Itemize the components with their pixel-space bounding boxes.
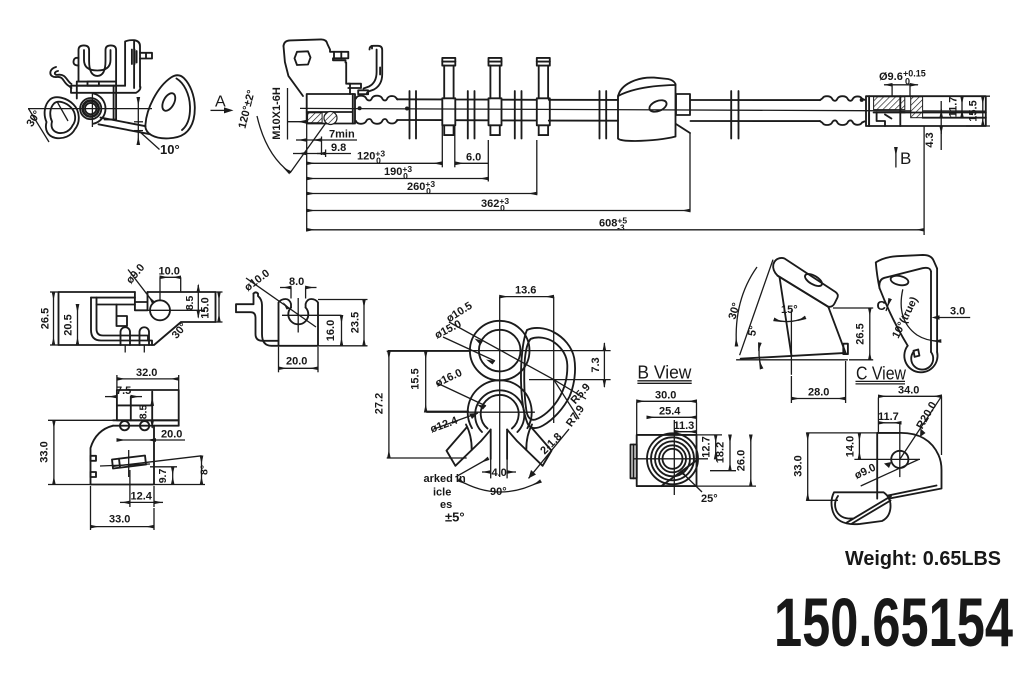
R20.0 leader: [900, 396, 942, 459]
plate outline: [59, 292, 216, 345]
inner J tab: [91, 298, 152, 345]
side rect: [676, 94, 690, 115]
7min dimension: [296, 139, 307, 141]
weld dot on hose: [405, 107, 409, 111]
26.0 dim: [661, 485, 756, 487]
svg-text:8°: 8°: [199, 465, 211, 475]
thin double clip 3: [515, 91, 522, 139]
8.5 dim: [197, 285, 199, 292]
dia 15.0 leader: [443, 337, 495, 361]
body outline: [877, 433, 941, 499]
svg-text:icle: icle: [433, 487, 451, 499]
bore lines: [900, 112, 986, 114]
top ring outer dia 15: [470, 321, 530, 381]
svg-text:3.0: 3.0: [950, 306, 965, 318]
dia 9.0 leader: [861, 459, 919, 486]
10 deg leader: [140, 132, 160, 150]
ROW3: bracket detail 3 (front view): [39, 367, 211, 530]
10 deg true arc: [901, 289, 941, 341]
top notch: [135, 292, 148, 310]
hose top and bottom lines: [397, 99, 820, 121]
bottom ring mid dia 12.4: [475, 390, 524, 432]
GROMMET cross-section: [374, 285, 611, 525]
diagonal to extension: [676, 124, 690, 133]
body: [637, 435, 697, 486]
11.7 dim: [878, 422, 901, 424]
centerlines: [282, 314, 342, 316]
right fitting dimensions: [879, 69, 990, 151]
bellows left: [356, 96, 398, 124]
15 deg arc: [774, 318, 805, 322]
34.0 dim: [877, 398, 879, 433]
svg-text:15.0: 15.0: [200, 297, 212, 318]
right wing: [507, 427, 551, 466]
weld dot: [358, 106, 362, 110]
25.4 dim: [647, 416, 697, 418]
svg-text:8.0: 8.0: [289, 276, 304, 288]
hole: [891, 451, 908, 468]
banjo bolt circles: [80, 98, 101, 119]
clip1 extension lines: [441, 125, 443, 167]
190 dimension: [307, 178, 489, 180]
svg-text:33.0: 33.0: [793, 455, 805, 476]
dia 10.0 leader: [246, 278, 316, 327]
top ring inner dia 10.5: [479, 330, 521, 372]
10.0 dim: [160, 276, 181, 278]
R7.9 leader: [554, 380, 579, 419]
svg-text:14.0: 14.0: [845, 436, 857, 457]
right lobe inner: [524, 337, 567, 419]
7.5 dim: [105, 396, 117, 398]
centerlines: [388, 350, 611, 352]
weld tabs on left edge: [91, 456, 97, 461]
svg-text:10.0: 10.0: [159, 266, 180, 278]
svg-text:20.0: 20.0: [286, 356, 307, 368]
svg-text:M10X1-6H: M10X1-6H: [271, 87, 283, 140]
step detail: [869, 113, 891, 127]
20.0 dim with shelf: [117, 439, 156, 441]
svg-text:12.7: 12.7: [701, 436, 713, 457]
grommet loop outer: [45, 97, 79, 138]
7min ticks: [321, 137, 323, 156]
7.3 dim: [603, 343, 605, 351]
banjo fitting body: [307, 94, 362, 125]
svg-text:Ø9.6: Ø9.6: [879, 71, 903, 83]
feet: [121, 327, 131, 345]
svg-text:18.2: 18.2: [715, 442, 727, 463]
B VIEW: [631, 363, 757, 506]
R5.9 leader: [554, 380, 586, 399]
centerlines: [634, 458, 708, 460]
middle bracket extension: [689, 133, 691, 212]
9.8 dimension: [293, 153, 307, 155]
10 deg reference line with arrows: [137, 97, 139, 144]
oblong hole: [890, 274, 909, 287]
top plate: [876, 255, 937, 288]
svg-text:9.7: 9.7: [157, 469, 169, 484]
4.3 dim: [940, 101, 942, 150]
clip3 extension: [536, 140, 538, 195]
svg-text:25°: 25°: [701, 493, 718, 505]
bottom ring outer dia 16: [468, 380, 532, 428]
svg-text:11.3: 11.3: [674, 420, 695, 432]
clip2 extension: [487, 140, 489, 182]
MAIN ASSEMBLY: banjo bracket plate left: [284, 39, 351, 96]
svg-text:Weight: 0.65LBS: Weight: 0.65LBS: [845, 547, 1001, 570]
svg-text:C: C: [877, 298, 887, 313]
15.5 dim: [982, 96, 984, 126]
27.2 dim: [387, 350, 470, 352]
svg-text:26.0: 26.0: [736, 450, 748, 471]
23.5 dim: [318, 299, 368, 301]
svg-text:12.4: 12.4: [131, 491, 153, 503]
svg-text:150.65154: 150.65154: [774, 584, 1013, 661]
33.0 bottom dim: [90, 486, 92, 530]
4.0 dim: [482, 471, 491, 473]
hose centerline full length: [300, 108, 986, 111]
tall spring clip 1: [442, 58, 455, 135]
svg-text:16.0: 16.0: [325, 320, 337, 341]
svg-text:90°: 90°: [490, 486, 507, 498]
svg-text:4.3: 4.3: [924, 132, 936, 147]
svg-text:B View: B View: [637, 363, 692, 383]
12.4 dim: [129, 470, 131, 507]
banjo bolt seat hatched circle: [324, 112, 337, 125]
stop tab under J-clip: [348, 84, 361, 88]
DIMENSIONS of main assembly: [293, 109, 924, 235]
pipe end: [899, 96, 901, 126]
8.0 dim: [280, 287, 291, 289]
ISOMETRIC VIEW top-left: bracket assembly: [24, 40, 194, 157]
chamfer: [661, 460, 696, 486]
20.0 dim: [278, 347, 280, 372]
svg-text:6.0: 6.0: [466, 152, 481, 164]
right edge double line: [931, 269, 937, 353]
8.5 dim: [151, 392, 153, 406]
svg-text:23.5: 23.5: [350, 312, 362, 333]
svg-text:26.5: 26.5: [39, 308, 51, 329]
svg-text:4.0: 4.0: [492, 467, 507, 479]
ROW2: bracket detail 2 (hook bracket): [236, 267, 368, 372]
svg-text:15.5: 15.5: [968, 100, 980, 121]
svg-text:26.5: 26.5: [855, 323, 867, 344]
svg-text:9.8: 9.8: [331, 142, 346, 154]
30 deg ray: [29, 109, 50, 142]
33.0 dim: [806, 432, 858, 434]
120 dimension: [307, 162, 442, 164]
body: [91, 426, 155, 485]
20.5 dim: [77, 305, 79, 346]
thin double clip 2: [468, 91, 475, 139]
front edge: [780, 277, 792, 355]
TOP-RIGHT hook bracket (C view source): [876, 255, 970, 372]
bellows right: [820, 96, 865, 125]
L-bracket foot plate: [71, 86, 141, 93]
centerline through grommet and banjo bolt: [28, 108, 152, 110]
svg-text:8.5: 8.5: [184, 296, 196, 311]
svg-text:15.5: 15.5: [410, 368, 422, 389]
under edge: [880, 288, 908, 346]
foot pad: [358, 90, 368, 94]
svg-text:13.6: 13.6: [515, 285, 536, 297]
26.5 dim: [833, 307, 873, 309]
dia 12.4 leader: [434, 413, 478, 429]
hook C: [904, 346, 937, 373]
centerlines: [854, 458, 920, 460]
26.5 dim: [50, 291, 59, 293]
C VIEW: [793, 364, 942, 525]
note leader: [455, 459, 488, 478]
svg-text:32.0: 32.0: [136, 367, 157, 379]
15.0 dim: [216, 291, 223, 293]
bottom double edge: [888, 486, 937, 496]
3.0 leader: [938, 317, 970, 319]
left wing: [447, 427, 491, 466]
svg-text:B: B: [900, 149, 911, 168]
fork base band: [77, 82, 116, 86]
svg-text:11.7: 11.7: [878, 411, 899, 423]
L-bracket vertical plate: [125, 40, 140, 88]
30 deg arc: [736, 267, 757, 346]
svg-text:5°: 5°: [746, 325, 760, 337]
15 deg vertical ref: [790, 310, 792, 375]
strip plate: [773, 258, 838, 307]
bottom edge 5deg: [741, 353, 846, 359]
90 deg arc: [459, 480, 541, 492]
svg-text:15°: 15°: [781, 304, 798, 316]
svg-text:33.0: 33.0: [39, 441, 51, 462]
rolled tube: [831, 492, 890, 524]
svg-text:25.4: 25.4: [659, 406, 681, 418]
12.7 dim: [697, 434, 723, 436]
30.0 dim: [636, 403, 638, 435]
dia 10.5 leader through centers: [449, 322, 554, 380]
6.0 dimension: [456, 162, 489, 164]
svg-text:8.5: 8.5: [138, 405, 150, 420]
svg-text:30.0: 30.0: [655, 390, 676, 402]
tube seam diagonals: [847, 496, 891, 522]
left tab: [631, 445, 637, 479]
25 deg leader: [681, 472, 702, 493]
5 deg arc: [759, 343, 762, 369]
corner tab: [843, 344, 848, 354]
VIEW ARROW A: [211, 94, 234, 114]
hatched nipple: [911, 97, 923, 118]
right lobe outer: [521, 328, 575, 428]
dia 16.0 leader: [437, 383, 486, 406]
middle bracket on hose: [618, 78, 690, 141]
oblong hole in end bracket: [160, 91, 178, 113]
VIEW ARROW B: [896, 148, 911, 169]
hex hole: [295, 51, 311, 65]
hole dia 9: [150, 300, 170, 320]
slot in plate: [132, 50, 135, 65]
end bracket plate: [145, 75, 194, 138]
svg-text:C View: C View: [856, 364, 907, 384]
28.0 dim: [845, 361, 847, 403]
grommet loop inner: [50, 102, 75, 133]
thin double clip 5: [731, 91, 738, 139]
side tab: [140, 53, 152, 59]
hatched crimp shell: [874, 97, 905, 110]
oblong hole: [803, 272, 824, 289]
body with keyhole slot: [279, 299, 292, 346]
thread hatch M10: [308, 113, 323, 123]
pin through bracket: [112, 456, 146, 469]
thin double clip 1: [410, 91, 417, 139]
9.7 dim: [150, 466, 177, 468]
svg-text:7.3: 7.3: [590, 357, 602, 372]
right slant edge: [828, 307, 845, 353]
ear tab on left prong: [73, 58, 78, 66]
MIDDLE BRACKET side view (between B and C): [726, 258, 873, 403]
concentric rings: [647, 433, 698, 484]
33.0 left dim: [48, 419, 115, 421]
svg-text:±5°: ±5°: [445, 510, 465, 525]
spring clip wire: [50, 67, 71, 88]
15.5 dim: [425, 410, 469, 412]
svg-text:7.5: 7.5: [116, 385, 131, 397]
fitting block under fork: [77, 86, 116, 120]
left master extension line: [306, 109, 308, 232]
svg-text:7min: 7min: [329, 129, 355, 141]
260 dimension: [307, 193, 537, 195]
feet holes: [120, 421, 129, 430]
J-clip holder on fitting: [348, 46, 382, 94]
11.3 dim: [674, 431, 696, 433]
loop interior diagonal: [57, 102, 68, 122]
oblong hole: [648, 98, 668, 114]
top plate: [117, 390, 179, 420]
arc with arrow: [257, 116, 290, 173]
svg-text:33.0: 33.0: [109, 514, 130, 526]
30 deg ray: [740, 260, 773, 356]
13.6 dim: [500, 296, 554, 298]
362 dimension: [307, 210, 690, 212]
8 deg angle line: [112, 456, 202, 467]
dia 9.0 leader: [128, 270, 154, 303]
angle ray through fitting: [290, 112, 334, 174]
608 dimension: [307, 229, 924, 231]
bottom ring bore dia 9.6: [481, 395, 519, 429]
32.0 dim: [116, 375, 118, 390]
keyhole circle: [288, 308, 308, 325]
U-fork clip: [79, 45, 117, 81]
svg-text:10°: 10°: [160, 142, 180, 157]
svg-text:34.0: 34.0: [898, 385, 919, 397]
right fitting extension: [923, 126, 925, 235]
120 deg +-2 annotation: [237, 89, 334, 173]
tall spring clip 2: [489, 58, 502, 135]
2-1.8 leader: [529, 429, 570, 478]
thin double clip 4: [600, 91, 607, 139]
M10X1-6H thread callout: [271, 87, 306, 140]
svg-text:28.0: 28.0: [808, 387, 829, 399]
16.0 dim: [341, 315, 343, 346]
arm to end bracket: [101, 118, 146, 127]
hook strip: [254, 292, 279, 345]
right end fitting body: [866, 96, 986, 126]
svg-text:20.5: 20.5: [63, 314, 75, 335]
14.0 dim: [858, 432, 877, 434]
hole centerlines: [144, 309, 205, 311]
svg-text:20.0: 20.0: [161, 429, 182, 441]
18.2 dim: [710, 470, 736, 472]
tall spring clip 3: [537, 58, 550, 135]
baseline: [736, 359, 848, 361]
11.7 dim: [961, 96, 963, 118]
stem walls: [490, 430, 492, 460]
flange strip: [113, 420, 179, 425]
vertical centerline of bolt: [91, 94, 93, 128]
svg-text:27.2: 27.2: [374, 393, 386, 414]
ROW2: bracket detail 1 (side view): [39, 262, 222, 353]
svg-text:11.7: 11.7: [948, 97, 960, 118]
